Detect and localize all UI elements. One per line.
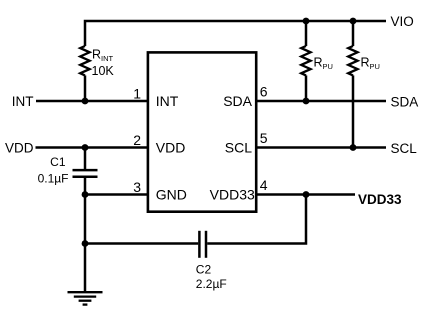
node: junction VIO rail / R_PU1	[303, 18, 310, 25]
svg-text:2.2µF: 2.2µF	[196, 277, 227, 291]
svg-text:SCL: SCL	[391, 141, 418, 156]
resistor R_PU2	[348, 46, 357, 75]
svg-text:10K: 10K	[92, 64, 115, 78]
svg-text:C1: C1	[50, 155, 66, 169]
svg-text:4: 4	[260, 177, 268, 193]
svg-text:2: 2	[133, 132, 141, 148]
wire: R_PU1 bottom to SDA node	[305, 75, 308, 101]
svg-text:RPU: RPU	[361, 56, 380, 72]
node: junction VDD33 / C2 branch	[303, 191, 310, 198]
wire: VIO top rail with left corner down to R_INT	[85, 21, 386, 46]
wire: VIO rail to R_PU1 top	[305, 21, 308, 46]
svg-text:SCL: SCL	[225, 139, 252, 155]
svg-text:C2: C2	[196, 263, 212, 277]
node: junction SDA / R_PU1	[303, 98, 310, 105]
svg-text:RINT: RINT	[92, 47, 114, 63]
node: junction GND pin3 / vertical	[82, 191, 89, 198]
svg-text:RPU: RPU	[314, 56, 333, 72]
node: junction C2 / ground vertical	[82, 240, 89, 247]
svg-text:INT: INT	[156, 93, 179, 109]
svg-text:SDA: SDA	[391, 95, 419, 110]
svg-text:GND: GND	[156, 186, 187, 202]
wire: C2 right segment up to VDD33 node	[207, 195, 306, 244]
resistor R_PU1	[301, 46, 310, 75]
svg-text:VIO: VIO	[391, 14, 414, 29]
wire: VDD net to pin 2	[36, 146, 150, 149]
wire: R_PU2 bottom across SDA to SCL node	[352, 75, 355, 147]
wire: R_INT bottom to INT node	[84, 75, 87, 101]
node: junction VDD / C1	[82, 144, 89, 151]
wire: GND pin 3 stub	[85, 193, 149, 196]
svg-text:VDD33: VDD33	[358, 192, 402, 207]
capacitor C1	[73, 170, 98, 177]
resistor R_INT	[80, 46, 89, 75]
node: junction VIO rail / R_PU2	[350, 18, 357, 25]
wire: SCL net from pin 5	[255, 146, 386, 149]
wire: VDD33 net from pin 4	[255, 193, 355, 196]
wire: SDA net from pin 6	[255, 100, 386, 103]
wire: VIO rail to R_PU2 top	[352, 21, 355, 46]
wire: C2 left segment	[85, 242, 198, 245]
svg-text:1: 1	[133, 85, 141, 101]
wire: C1 bottom plate down through GND node and C2 node to ground	[84, 177, 87, 291]
ground	[68, 292, 103, 304]
svg-text:VDD: VDD	[156, 139, 186, 155]
svg-text:VDD: VDD	[5, 140, 34, 155]
node: junction SCL / R_PU2	[350, 144, 357, 151]
svg-text:VDD33: VDD33	[210, 186, 255, 202]
svg-text:INT: INT	[12, 94, 34, 109]
svg-text:5: 5	[260, 130, 268, 146]
svg-text:3: 3	[133, 179, 141, 195]
svg-text:0.1µF: 0.1µF	[38, 172, 69, 186]
wire: VDD node down to C1 top plate	[84, 148, 87, 170]
op-amp U1 (IC body)	[148, 52, 256, 211]
node: junction R_INT / INT	[82, 98, 89, 105]
svg-text:SDA: SDA	[223, 93, 252, 109]
svg-text:6: 6	[260, 83, 268, 99]
capacitor C2	[199, 231, 206, 258]
wire: INT net to pin 1	[36, 100, 149, 103]
